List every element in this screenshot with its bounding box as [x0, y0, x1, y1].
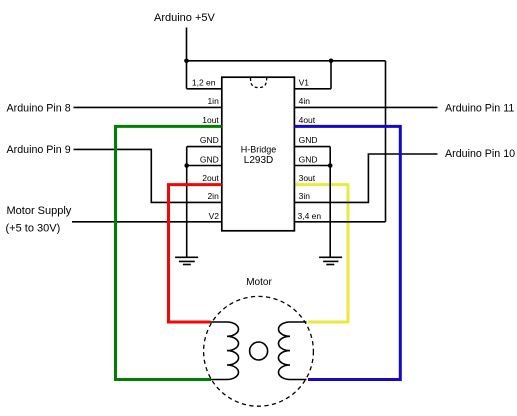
- svg-text:3out: 3out: [299, 173, 316, 183]
- svg-text:(+5 to 30V): (+5 to 30V): [6, 223, 61, 235]
- svg-text:3,4 en: 3,4 en: [298, 211, 322, 221]
- svg-text:V1: V1: [299, 77, 310, 87]
- svg-text:Arduino Pin 10: Arduino Pin 10: [445, 148, 515, 160]
- svg-text:4out: 4out: [299, 115, 316, 125]
- svg-text:GND: GND: [200, 154, 219, 164]
- svg-text:3in: 3in: [299, 191, 311, 201]
- svg-text:GND: GND: [200, 135, 219, 145]
- svg-text:1out: 1out: [202, 115, 219, 125]
- svg-text:Motor: Motor: [246, 277, 272, 288]
- svg-text:GND: GND: [299, 135, 318, 145]
- svg-text:2out: 2out: [202, 173, 219, 183]
- svg-text:GND: GND: [299, 154, 318, 164]
- svg-text:2in: 2in: [207, 191, 219, 201]
- svg-text:1in: 1in: [207, 96, 219, 106]
- svg-text:Arduino Pin 9: Arduino Pin 9: [7, 144, 71, 156]
- svg-text:H-Bridge: H-Bridge: [241, 144, 277, 154]
- svg-text:1,2 en: 1,2 en: [192, 77, 216, 87]
- svg-text:Arduino Pin 11: Arduino Pin 11: [445, 102, 514, 114]
- svg-text:Arduino Pin 8: Arduino Pin 8: [7, 102, 71, 114]
- svg-text:Motor Supply: Motor Supply: [7, 205, 72, 217]
- svg-text:V2: V2: [209, 211, 220, 221]
- svg-text:Arduino +5V: Arduino +5V: [154, 12, 216, 24]
- svg-text:4in: 4in: [299, 96, 311, 106]
- svg-text:L293D: L293D: [244, 155, 273, 166]
